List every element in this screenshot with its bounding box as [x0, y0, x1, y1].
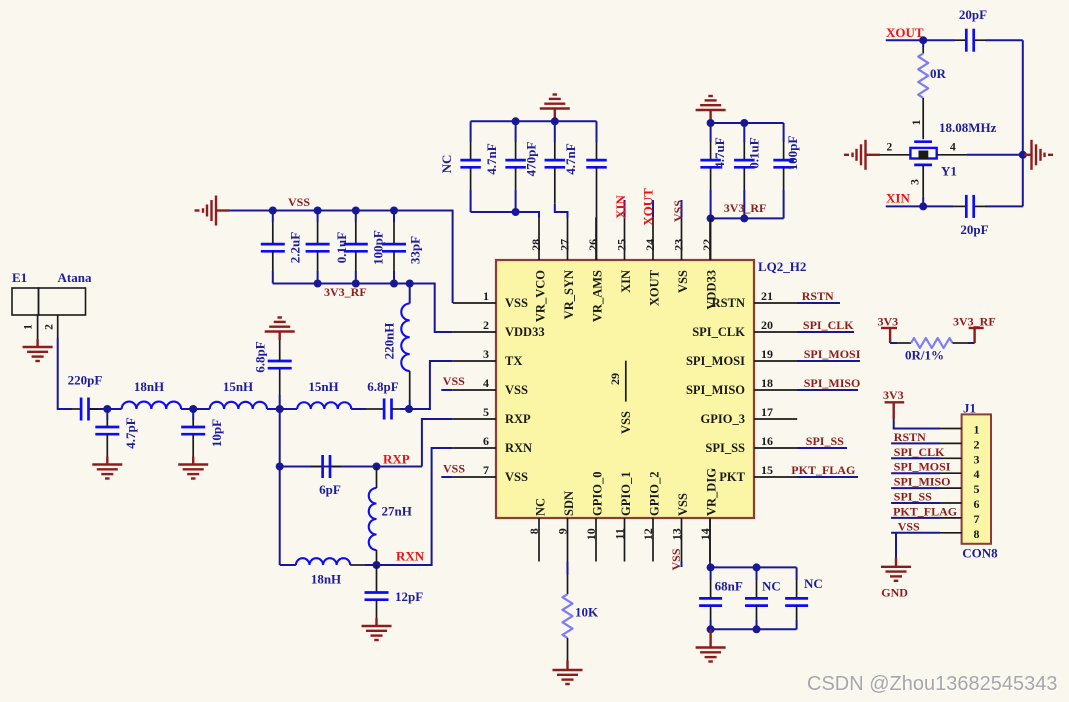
- svg-text:15nH: 15nH: [308, 379, 338, 394]
- svg-text:SPI_MOSI: SPI_MOSI: [804, 347, 861, 361]
- svg-text:GPIO_2: GPIO_2: [647, 472, 661, 516]
- svg-text:SPI_MOSI: SPI_MOSI: [894, 460, 951, 474]
- svg-text:VSS: VSS: [671, 200, 685, 222]
- svg-text:SPI_MISO: SPI_MISO: [804, 376, 861, 390]
- svg-text:7: 7: [974, 512, 980, 526]
- svg-text:NC: NC: [804, 576, 823, 591]
- svg-text:5: 5: [483, 405, 489, 419]
- svg-text:RXN: RXN: [396, 549, 425, 564]
- svg-text:SDN: SDN: [562, 491, 576, 516]
- svg-text:CSDN @Zhou13682545343: CSDN @Zhou13682545343: [807, 673, 1057, 695]
- svg-text:1: 1: [974, 423, 980, 437]
- svg-text:VSS: VSS: [619, 411, 633, 434]
- svg-text:5: 5: [974, 482, 980, 496]
- svg-text:20pF: 20pF: [959, 7, 987, 22]
- svg-text:20: 20: [761, 318, 773, 332]
- svg-text:12pF: 12pF: [395, 589, 423, 604]
- svg-text:3: 3: [910, 179, 922, 185]
- svg-text:470pF: 470pF: [524, 142, 539, 177]
- svg-text:2: 2: [974, 437, 980, 451]
- svg-text:VR_SYN: VR_SYN: [562, 270, 576, 319]
- svg-text:VDD33: VDD33: [704, 270, 718, 310]
- svg-text:VDD33: VDD33: [505, 325, 545, 339]
- svg-text:1: 1: [483, 289, 489, 303]
- svg-text:VSS: VSS: [505, 470, 528, 484]
- svg-text:33pF: 33pF: [408, 236, 423, 264]
- svg-text:Atana: Atana: [58, 270, 92, 285]
- svg-text:0R: 0R: [930, 66, 947, 81]
- svg-text:18: 18: [761, 376, 773, 390]
- svg-text:XIN: XIN: [886, 191, 910, 206]
- svg-text:VR_VCO: VR_VCO: [533, 270, 547, 322]
- svg-text:NC: NC: [439, 155, 454, 174]
- svg-text:RXN: RXN: [505, 441, 532, 455]
- svg-text:3: 3: [974, 452, 980, 466]
- svg-text:NC: NC: [762, 579, 781, 594]
- svg-text:VSS: VSS: [669, 548, 683, 570]
- svg-text:10pF: 10pF: [209, 419, 224, 447]
- svg-text:SPI_MISO: SPI_MISO: [686, 383, 745, 397]
- svg-text:10K: 10K: [575, 605, 599, 620]
- svg-text:4: 4: [974, 467, 980, 481]
- svg-text:27nH: 27nH: [382, 504, 412, 519]
- svg-text:LQ2_H2: LQ2_H2: [758, 259, 806, 274]
- svg-text:XIN: XIN: [619, 270, 633, 293]
- svg-text:SPI_CLK: SPI_CLK: [894, 445, 945, 459]
- svg-text:VSS: VSS: [443, 462, 465, 476]
- svg-text:SPI_SS: SPI_SS: [894, 490, 932, 504]
- svg-text:17: 17: [761, 405, 773, 419]
- svg-text:9: 9: [555, 528, 569, 534]
- svg-text:SPI_MISO: SPI_MISO: [894, 475, 951, 489]
- svg-text:18nH: 18nH: [311, 572, 341, 587]
- svg-text:VSS: VSS: [443, 374, 465, 388]
- svg-text:PKT_FLAG: PKT_FLAG: [791, 463, 855, 477]
- svg-text:0.1uF: 0.1uF: [747, 137, 762, 168]
- svg-text:8: 8: [974, 527, 980, 541]
- svg-text:SPI_CLK: SPI_CLK: [803, 318, 854, 332]
- svg-text:20pF: 20pF: [960, 222, 988, 237]
- svg-text:3V3: 3V3: [878, 315, 899, 329]
- svg-text:16: 16: [761, 434, 773, 448]
- svg-text:XOUT: XOUT: [647, 269, 661, 306]
- svg-text:XOUT: XOUT: [641, 188, 656, 226]
- svg-text:VSS: VSS: [505, 383, 528, 397]
- svg-text:XOUT: XOUT: [886, 25, 924, 40]
- svg-text:15nH: 15nH: [223, 379, 253, 394]
- svg-text:SPI_SS: SPI_SS: [705, 441, 745, 455]
- svg-text:VR_DIG: VR_DIG: [704, 468, 718, 516]
- svg-text:3V3_RF: 3V3_RF: [324, 285, 367, 299]
- svg-text:SPI_CLK: SPI_CLK: [692, 325, 745, 339]
- svg-text:220pF: 220pF: [68, 373, 103, 388]
- svg-text:RSTN: RSTN: [802, 289, 834, 303]
- svg-text:2: 2: [887, 142, 893, 154]
- svg-text:15: 15: [761, 463, 773, 477]
- svg-text:GPIO_3: GPIO_3: [701, 412, 745, 426]
- svg-text:23: 23: [672, 239, 686, 251]
- svg-text:8: 8: [527, 528, 541, 534]
- svg-text:GPIO_0: GPIO_0: [590, 472, 604, 516]
- svg-text:3V3: 3V3: [883, 388, 904, 402]
- svg-text:7: 7: [483, 463, 489, 477]
- svg-text:6pF: 6pF: [319, 482, 341, 497]
- svg-text:3V3_RF: 3V3_RF: [953, 315, 996, 329]
- svg-text:0.1uF: 0.1uF: [334, 232, 349, 263]
- svg-text:68nF: 68nF: [715, 579, 743, 594]
- svg-text:28: 28: [529, 239, 543, 251]
- svg-text:GND: GND: [881, 586, 908, 600]
- svg-text:VSS: VSS: [898, 519, 920, 533]
- svg-text:24: 24: [643, 239, 657, 251]
- svg-text:4.7uF: 4.7uF: [712, 137, 727, 168]
- svg-text:VR_AMS: VR_AMS: [590, 270, 604, 322]
- svg-text:2: 2: [483, 318, 489, 332]
- svg-text:2.2uF: 2.2uF: [288, 232, 303, 263]
- svg-text:18nH: 18nH: [134, 379, 164, 394]
- svg-text:4.7nF: 4.7nF: [484, 143, 499, 174]
- svg-text:2: 2: [44, 324, 56, 330]
- svg-text:Y1: Y1: [941, 164, 957, 179]
- svg-text:GPIO_1: GPIO_1: [619, 472, 633, 516]
- svg-text:RXP: RXP: [505, 412, 531, 426]
- svg-text:3V3_RF: 3V3_RF: [724, 201, 767, 215]
- svg-text:1: 1: [911, 119, 923, 125]
- svg-text:E1: E1: [12, 270, 27, 285]
- svg-text:6: 6: [483, 434, 489, 448]
- svg-text:22: 22: [700, 239, 714, 251]
- svg-text:RXP: RXP: [383, 452, 410, 467]
- svg-text:0R/1%: 0R/1%: [905, 348, 944, 363]
- svg-text:4: 4: [483, 376, 489, 390]
- svg-text:3: 3: [483, 347, 489, 361]
- svg-text:PKT: PKT: [719, 470, 745, 484]
- svg-text:VSS: VSS: [288, 195, 310, 209]
- svg-text:VSS: VSS: [676, 493, 690, 516]
- svg-text:21: 21: [761, 289, 773, 303]
- svg-text:1: 1: [23, 324, 35, 330]
- svg-text:PKT_FLAG: PKT_FLAG: [893, 504, 957, 518]
- svg-text:4.7nF: 4.7nF: [563, 143, 578, 174]
- svg-text:VSS: VSS: [676, 270, 690, 293]
- svg-text:26: 26: [586, 239, 600, 251]
- svg-text:4.7pF: 4.7pF: [123, 417, 138, 448]
- svg-text:J1: J1: [963, 401, 976, 416]
- svg-text:6: 6: [974, 497, 980, 511]
- svg-text:25: 25: [615, 239, 629, 251]
- svg-text:RSTN: RSTN: [894, 430, 926, 444]
- svg-text:NC: NC: [533, 498, 547, 516]
- svg-text:18.08MHz: 18.08MHz: [939, 120, 997, 135]
- svg-text:4: 4: [950, 142, 956, 154]
- svg-text:29: 29: [608, 373, 622, 385]
- svg-text:11: 11: [612, 528, 626, 539]
- svg-text:6.8pF: 6.8pF: [253, 341, 268, 372]
- svg-text:XIN: XIN: [613, 194, 628, 218]
- svg-text:13: 13: [669, 528, 683, 540]
- svg-text:TX: TX: [505, 354, 522, 368]
- svg-text:VSS: VSS: [505, 296, 528, 310]
- svg-text:SPI_MOSI: SPI_MOSI: [686, 354, 745, 368]
- svg-text:10: 10: [584, 528, 598, 540]
- svg-text:SPI_SS: SPI_SS: [806, 434, 844, 448]
- svg-text:27: 27: [558, 239, 572, 251]
- svg-text:CON8: CON8: [962, 546, 998, 561]
- svg-text:12: 12: [641, 528, 655, 540]
- svg-text:6.8pF: 6.8pF: [367, 379, 398, 394]
- svg-text:100pF: 100pF: [785, 136, 800, 171]
- svg-text:100pF: 100pF: [371, 230, 386, 265]
- svg-text:220nH: 220nH: [382, 323, 397, 360]
- svg-text:19: 19: [761, 347, 773, 361]
